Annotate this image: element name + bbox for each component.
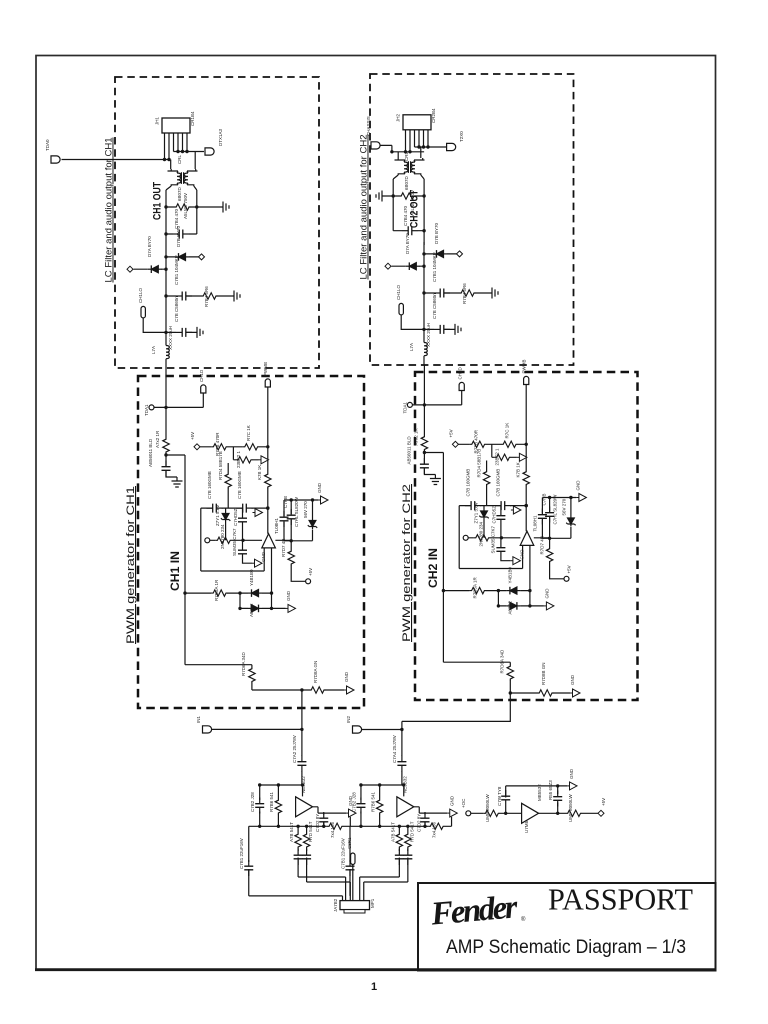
svg-text:A7B 541T: A7B 541T (289, 822, 294, 842)
svg-text:Z7Y1 5.6V: Z7Y1 5.6V (215, 505, 220, 526)
svg-text:R7D5A 1R: R7D5A 1R (214, 579, 219, 601)
svg-text:C8R1: C8R1 (347, 837, 352, 849)
svg-text:C7W TY8: C7W TY8 (497, 786, 502, 806)
svg-text:C7A2 25J78V: C7A2 25J78V (292, 735, 297, 763)
svg-text:PWMB: PWMB (263, 362, 268, 376)
svg-text:R7C 1K: R7C 1K (246, 425, 251, 441)
svg-text:23BF2 1: 23BF2 1 (236, 450, 241, 468)
svg-text:CH1 OUT: CH1 OUT (152, 182, 164, 220)
svg-text:C7HD5Z: C7HD5Z (233, 508, 238, 526)
svg-text:6B07D: 6B07D (177, 186, 182, 201)
svg-text:C7B 160GMB: C7B 160GMB (237, 471, 242, 499)
svg-text:R7D8B GN: R7D8B GN (541, 662, 546, 685)
svg-text:GND: GND (569, 768, 574, 779)
svg-text:R7D7 4R: R7D7 4R (281, 538, 286, 557)
svg-text:7x4 136: 7x4 136 (330, 821, 335, 838)
svg-text:NE5B32: NE5B32 (301, 776, 306, 793)
svg-text:Y4B1B0: Y4B1B0 (249, 569, 254, 586)
svg-text:C7D2 8Y: C7D2 8Y (315, 814, 320, 832)
svg-text:LC Filter and audio output for: LC Filter and audio output for CH2 (359, 135, 370, 280)
svg-text:U7MB: U7MB (524, 820, 529, 833)
svg-text:C7B 160GMB: C7B 160GMB (207, 471, 212, 499)
svg-text:R55 65Z3: R55 65Z3 (548, 780, 553, 800)
svg-text:D7A BY70: D7A BY70 (147, 236, 152, 257)
svg-text:XXXX 20uH: XXXX 20uH (168, 326, 173, 350)
svg-text:GND: GND (570, 674, 575, 685)
svg-text:6B07D: 6B07D (404, 175, 409, 190)
svg-text:CRL: CRL (404, 152, 409, 161)
svg-text:GND: GND (317, 482, 322, 493)
svg-text:R7D6A 34D: R7D6A 34D (241, 651, 246, 676)
svg-text:JH1: JH1 (155, 117, 160, 125)
svg-text:C7HL SL820W: C7HL SL820W (294, 496, 299, 527)
svg-text:GND: GND (286, 590, 291, 601)
svg-text:+5V: +5V (308, 568, 313, 576)
svg-text:UMP 8050LW: UMP 8050LW (485, 794, 490, 822)
svg-text:2N8780 234: 2N8780 234 (220, 524, 225, 549)
svg-text:PASSPORT: PASSPORT (548, 883, 693, 917)
svg-text:PWM generator for CH1: PWM generator for CH1 (125, 486, 137, 644)
svg-text:CR1B4: CR1B4 (190, 111, 195, 126)
svg-text:+5V: +5V (190, 432, 195, 440)
svg-text:C7B1 104MKP: C7B1 104MKP (174, 255, 179, 285)
svg-text:R7B6 541: R7B6 541 (269, 791, 274, 812)
svg-text:CR2B4: CR2B4 (431, 108, 436, 123)
svg-text:Fender: Fender (429, 889, 520, 933)
svg-text:56V 270: 56V 270 (303, 501, 308, 518)
svg-text:IN1: IN1 (196, 716, 201, 724)
svg-text:R7B4 5R6: R7B4 5R6 (204, 286, 209, 307)
svg-text:PWM generator for CH2: PWM generator for CH2 (401, 484, 413, 642)
svg-text:C7HB: C7HB (283, 496, 288, 508)
svg-text:AB56011 BLD: AB56011 BLD (148, 438, 153, 467)
svg-text:A07B2: A07B2 (249, 603, 254, 617)
svg-text:A7x2 1R: A7x2 1R (155, 430, 160, 448)
svg-text:C7B1 22uF16V: C7B1 22uF16V (239, 838, 244, 869)
svg-text:L7A: L7A (151, 346, 156, 354)
svg-text:JH2: JH2 (396, 114, 401, 122)
svg-text:SUM35 C7K7: SUM35 C7K7 (232, 528, 237, 556)
svg-text:GND: GND (261, 551, 266, 562)
svg-text:A5LNE 750V: A5LNE 750V (183, 193, 188, 219)
svg-text:+OC: +OC (461, 798, 466, 808)
svg-text:CRL: CRL (177, 155, 182, 164)
svg-text:CHASSIS: CHASSIS (366, 116, 371, 136)
svg-text:C7B C5860n: C7B C5860n (174, 296, 179, 322)
svg-text:MP1: MP1 (370, 898, 375, 908)
svg-text:CH1LO: CH1LO (138, 287, 143, 303)
svg-text:+5V: +5V (601, 798, 606, 806)
svg-text:C7B4 470: C7B4 470 (403, 205, 408, 226)
svg-text:CH2 IN: CH2 IN (428, 548, 440, 588)
svg-text:JA7B2: JA7B2 (333, 898, 338, 912)
svg-text:R7D4 58B17B: R7D4 58B17B (218, 451, 223, 480)
svg-text:1: 1 (371, 981, 377, 993)
svg-text:DTX1A3: DTX1A3 (218, 128, 223, 146)
svg-text:TDA1: TDA1 (144, 404, 149, 416)
svg-text:C7A4 25J78V: C7A4 25J78V (392, 735, 397, 763)
svg-text:R7D 541T: R7D 541T (308, 821, 313, 842)
svg-text:D7B BY70: D7B BY70 (176, 225, 181, 247)
svg-text:UMP 8050LW: UMP 8050LW (568, 794, 573, 822)
svg-text:CH1 IN: CH1 IN (170, 551, 182, 591)
svg-text:A5LNE 750V: A5LNE 750V (410, 190, 415, 216)
svg-text:IN2: IN2 (346, 716, 351, 724)
svg-text:TL08H1: TL08H1 (274, 517, 279, 534)
svg-text:GND: GND (344, 671, 349, 682)
svg-text:T2X0: T2X0 (459, 131, 464, 142)
svg-text:K7B 1K: K7B 1K (257, 465, 262, 480)
svg-text:C7B2 J28: C7B2 J28 (250, 792, 255, 812)
svg-text:MB5532: MB5532 (537, 784, 542, 801)
svg-text:C7B4 470: C7B4 470 (174, 208, 179, 229)
svg-text:TDA0: TDA0 (45, 139, 50, 151)
svg-text:AMP Schematic Diagram – 1/3: AMP Schematic Diagram – 1/3 (446, 936, 686, 958)
svg-text:CH1D: CH1D (199, 369, 204, 382)
svg-text:®: ® (521, 916, 526, 923)
svg-text:R7D8A GN: R7D8A GN (313, 661, 318, 683)
